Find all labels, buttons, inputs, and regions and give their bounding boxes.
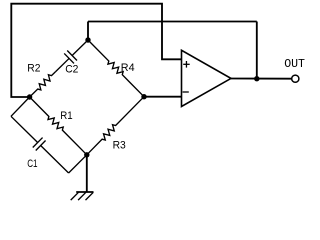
terminal OUT	[292, 75, 299, 82]
svg-text:R4: R4	[121, 62, 135, 74]
label C1	[27, 158, 37, 170]
label R4	[121, 62, 135, 74]
ground	[71, 192, 94, 200]
wire: node B up to feedback line	[87, 22, 89, 41]
node D (bridge bottom)	[84, 152, 89, 157]
wire: node C to op-amp -input	[144, 96, 182, 98]
wire: node D down to ground	[86, 155, 88, 192]
capacitor C2	[55, 40, 88, 72]
svg-text:C1: C1	[27, 158, 37, 170]
label R3	[113, 140, 126, 152]
node A (R1/R2/C1 junction)	[27, 94, 32, 99]
wire: node A down-left to C1 corner	[11, 97, 30, 116]
label C2	[65, 63, 78, 75]
label R1	[60, 110, 72, 122]
svg-text:R3: R3	[113, 140, 126, 152]
resistor R4	[88, 40, 144, 97]
wire: node A left and around top frame to op-amp +input	[11, 4, 181, 97]
wire: op-amp output to OUT terminal	[231, 78, 292, 80]
svg-text:R2: R2	[27, 62, 40, 74]
wire: feedback down to output node	[256, 22, 258, 79]
wire: feedback horizontal run	[88, 21, 257, 23]
node: output junction	[254, 76, 259, 81]
resistor R1	[30, 97, 87, 155]
node B (bridge top)	[85, 37, 90, 42]
label OUT	[284, 57, 305, 71]
svg-text:OUT: OUT	[284, 57, 305, 71]
node C (bridge right / -input)	[141, 94, 146, 99]
svg-text:R1: R1	[60, 110, 72, 122]
wire: C1 corner up-right to node D	[69, 155, 87, 173]
svg-text:C2: C2	[65, 63, 78, 75]
capacitor C1	[11, 116, 69, 173]
resistor R2	[30, 72, 56, 97]
label R2	[27, 62, 40, 74]
op-amp U1	[182, 50, 232, 106]
resistor R3	[87, 97, 144, 155]
